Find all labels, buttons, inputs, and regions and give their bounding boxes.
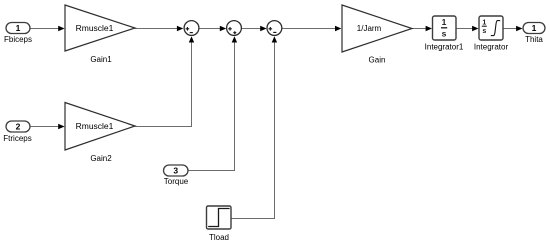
svg-text:1: 1 (16, 23, 21, 33)
svg-text:Gain1: Gain1 (90, 55, 112, 64)
svg-text:2: 2 (16, 122, 21, 132)
svg-text:1: 1 (482, 19, 486, 26)
svg-text:Gain2: Gain2 (90, 154, 112, 163)
svg-text:Thita: Thita (525, 35, 543, 44)
svg-text:Rmuscle1: Rmuscle1 (76, 23, 114, 33)
svg-text:s: s (442, 29, 447, 39)
svg-text:Rmuscle1: Rmuscle1 (76, 121, 114, 131)
svg-text:Torque: Torque (164, 177, 189, 186)
svg-text:1: 1 (442, 17, 447, 27)
svg-text:Integrator: Integrator (474, 43, 509, 52)
svg-text:1: 1 (532, 23, 537, 33)
svg-text:Ftriceps: Ftriceps (3, 134, 31, 143)
svg-text:s: s (482, 28, 486, 35)
svg-text:Tload: Tload (209, 233, 229, 242)
svg-text:Gain: Gain (369, 56, 386, 65)
svg-text:Integrator1: Integrator1 (425, 43, 464, 52)
svg-text:1/Jarm: 1/Jarm (357, 24, 382, 33)
svg-text:3: 3 (173, 166, 178, 176)
svg-text:Fbiceps: Fbiceps (4, 35, 32, 44)
